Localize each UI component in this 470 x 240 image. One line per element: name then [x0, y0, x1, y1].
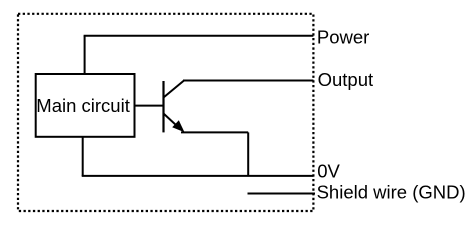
wire: 0V horizontal: [82, 175, 314, 177]
wire: base from main circuit to transistor: [135, 105, 164, 107]
wire: emitter horizontal: [181, 131, 248, 133]
wire: emitter vertical down to 0V: [247, 132, 249, 176]
wire: power rail vertical from main circuit top: [84, 36, 86, 74]
svg-text:Output: Output: [318, 69, 374, 90]
wire: output horizontal: [183, 80, 313, 82]
svg-text:Main circuit: Main circuit: [36, 95, 130, 116]
wire: shield wire: [248, 193, 316, 195]
transistor Q1 collector diagonal: [164, 81, 185, 98]
svg-text:Shield wire (GND): Shield wire (GND): [317, 182, 466, 203]
transistor Q1 base bar: [162, 81, 164, 132]
svg-text:0V: 0V: [317, 161, 340, 182]
transistor Q1 emitter arrowhead: [172, 120, 184, 132]
wire: 0V vertical from main circuit bottom: [82, 137, 84, 176]
sensor enclosure dotted border: [18, 14, 313, 211]
transistor Q1 emitter diagonal: [164, 114, 181, 129]
main circuit box: [36, 74, 135, 137]
svg-text:Power: Power: [317, 26, 369, 47]
wire: power rail horizontal: [84, 35, 314, 37]
